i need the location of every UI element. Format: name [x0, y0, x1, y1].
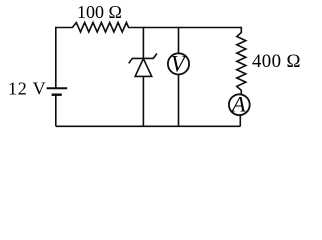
svg-text:12 V: 12 V [8, 79, 46, 99]
svg-text:A: A [230, 91, 246, 116]
svg-text:100 Ω: 100 Ω [77, 2, 122, 22]
svg-text:400 Ω: 400 Ω [252, 51, 301, 72]
